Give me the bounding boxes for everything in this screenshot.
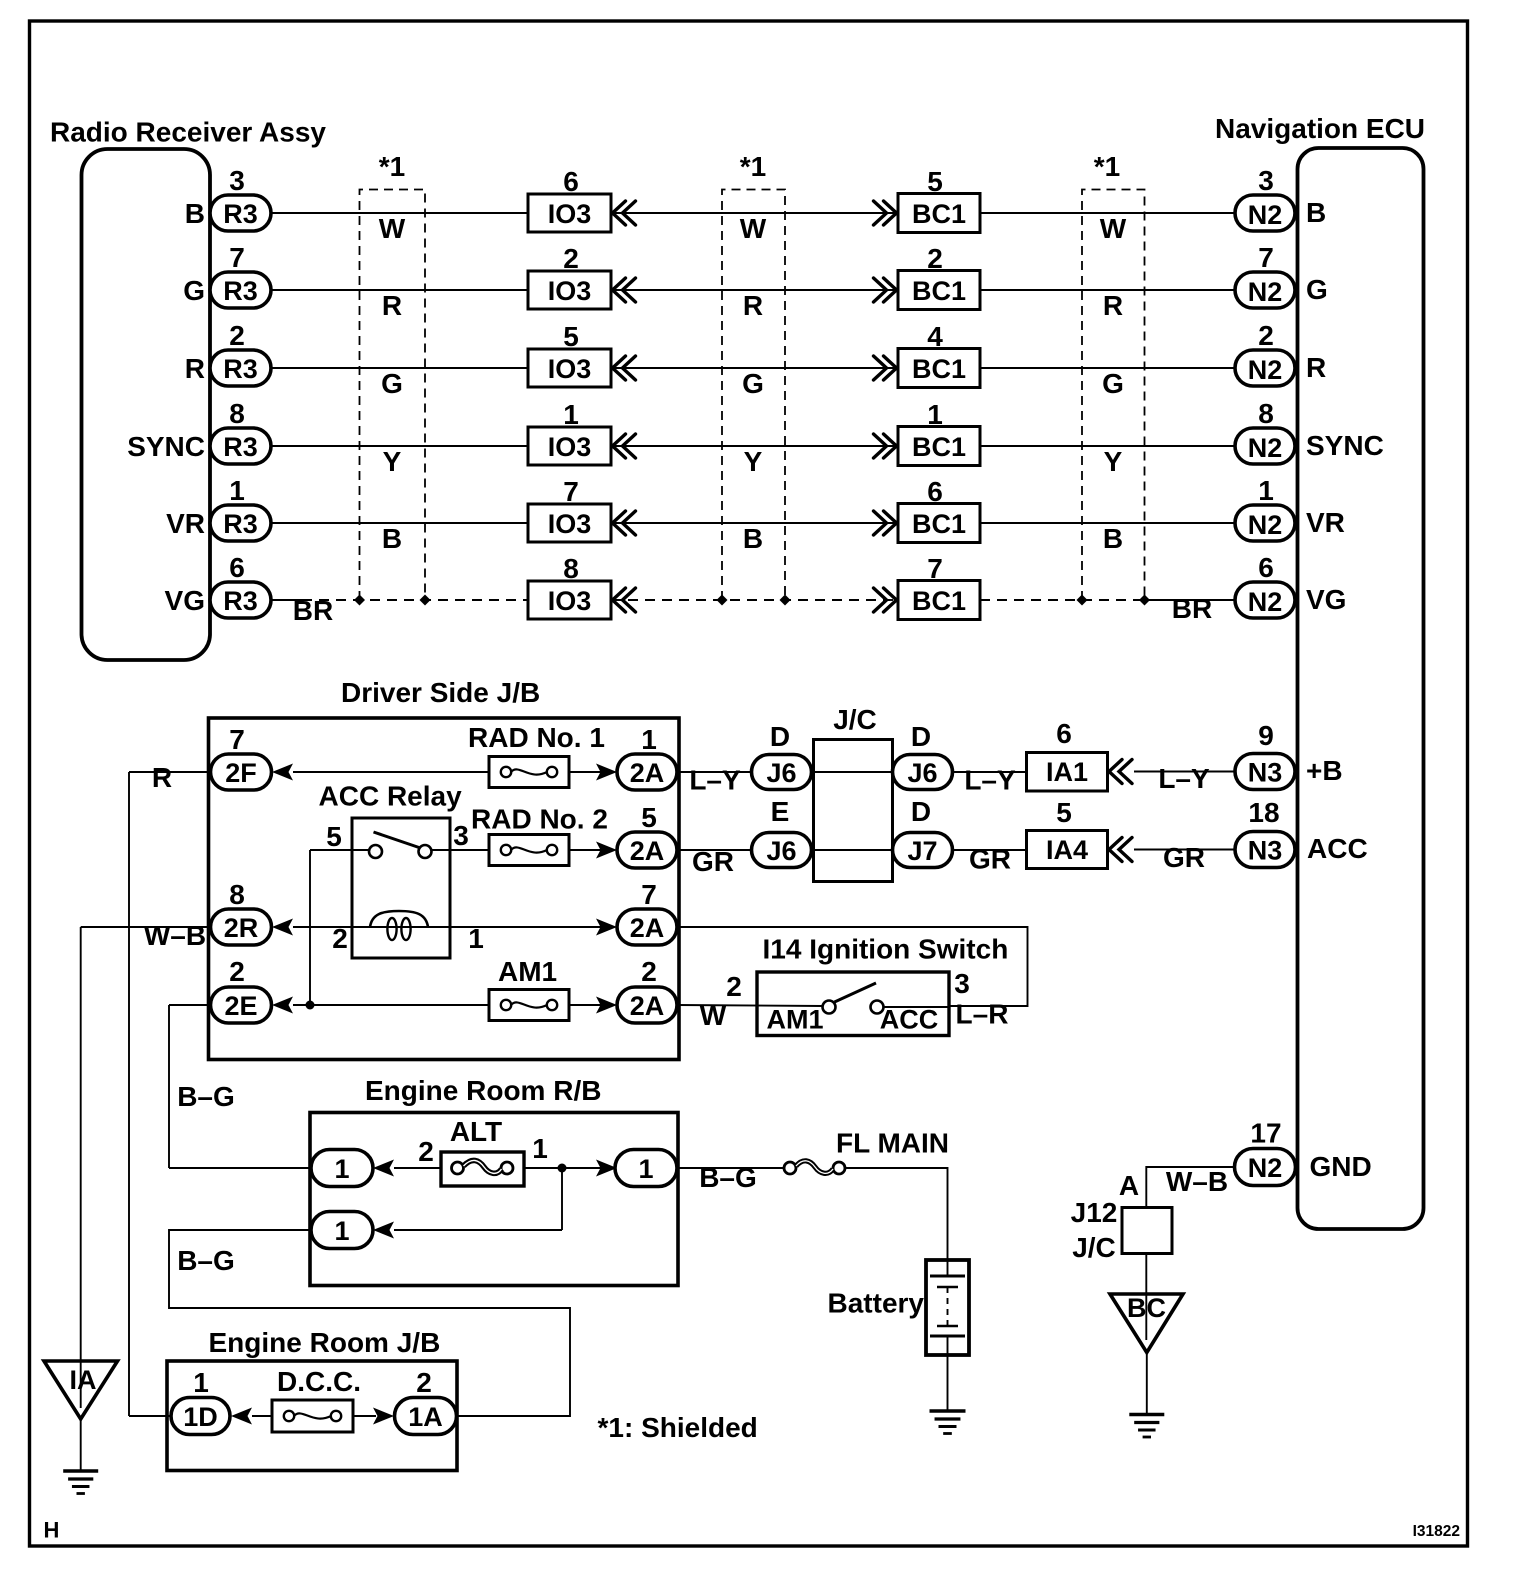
svg-text:5: 5: [563, 321, 579, 352]
svg-text:BC1: BC1: [912, 276, 966, 306]
wire from junction down to connector 1 lower: [394, 1229, 562, 1231]
junction dot on 2E wire: [306, 1001, 315, 1010]
svg-text:GR: GR: [969, 844, 1011, 875]
svg-text:3: 3: [954, 968, 970, 999]
wire FL MAIN to battery: [845, 1168, 948, 1260]
svg-text:2A: 2A: [630, 836, 665, 866]
wire G from BC1 to N2: [980, 289, 1235, 291]
svg-text:SYNC: SYNC: [127, 431, 205, 462]
wire through BC triangle: [1145, 1294, 1147, 1340]
fuse D.C.C.: [272, 1400, 353, 1432]
connector block Navigation ECU: [1298, 148, 1424, 1229]
svg-text:*1: *1: [1094, 151, 1120, 182]
svg-text:ACC: ACC: [1307, 833, 1368, 864]
shield dashed box 3: [1082, 190, 1145, 601]
svg-text:N3: N3: [1248, 836, 1283, 866]
wire W from 2A pin 2 to switch AM1 contact: [677, 1005, 823, 1006]
svg-text:6: 6: [1258, 552, 1274, 583]
chevron arrow into BC1 (R row): [874, 356, 897, 380]
relay block Engine Room R/B box: [310, 1113, 678, 1286]
svg-text:1D: 1D: [183, 1402, 218, 1432]
connector N3 pin 9: [1235, 754, 1295, 790]
battery: [926, 1260, 969, 1355]
svg-text:2A: 2A: [630, 913, 665, 943]
connector N2 pin 8 (SYNC): [1235, 428, 1295, 464]
svg-text:7: 7: [229, 724, 245, 755]
svg-text:1A: 1A: [408, 1402, 443, 1432]
svg-text:VG: VG: [165, 585, 205, 616]
svg-text:VR: VR: [1306, 507, 1345, 538]
wire AM1 fuse to 2A pin 2: [569, 1004, 601, 1006]
svg-text:N2: N2: [1248, 433, 1283, 463]
switch I14 box: [757, 972, 949, 1036]
svg-text:5: 5: [326, 821, 342, 852]
connector 2F: [211, 754, 272, 790]
ground below IA: [63, 1471, 98, 1494]
svg-text:2: 2: [641, 956, 657, 987]
connector R3 pin 2 (R): [210, 350, 271, 386]
wire B from BC1 to N2: [980, 212, 1235, 214]
svg-text:7: 7: [229, 242, 245, 273]
svg-text:18: 18: [1248, 797, 1279, 828]
wire through J/C ACC row: [814, 849, 893, 851]
svg-text:2: 2: [229, 956, 245, 987]
svg-text:2A: 2A: [630, 758, 665, 788]
svg-text:2F: 2F: [225, 758, 257, 788]
wire W-B from N2 GND to J12: [1146, 1167, 1235, 1208]
ground below battery: [930, 1411, 966, 1434]
wire W-B vertical down to IA ground triangle: [80, 927, 82, 1361]
svg-text:L–Y: L–Y: [689, 765, 741, 796]
arrow into 2A pin 5: [596, 842, 617, 859]
svg-text:R: R: [1103, 290, 1123, 321]
svg-text:GR: GR: [692, 846, 734, 877]
svg-text:RAD No. 2: RAD No. 2: [471, 804, 608, 835]
arrow into 2R: [272, 919, 293, 936]
fusible link ALT: [441, 1152, 524, 1186]
svg-text:AM1: AM1: [498, 956, 557, 987]
svg-text:IO3: IO3: [548, 354, 592, 384]
svg-text:R3: R3: [223, 586, 258, 616]
svg-text:8: 8: [229, 879, 245, 910]
svg-text:R3: R3: [223, 432, 258, 462]
connector 1D: [171, 1398, 230, 1435]
connector 1A: [395, 1398, 457, 1435]
shield drain junction diamond 5: [1077, 595, 1088, 606]
svg-text:IO3: IO3: [548, 432, 592, 462]
connector R3 pin 6 (VG): [210, 582, 271, 618]
svg-text:VG: VG: [1306, 584, 1346, 615]
wire J7 to IA4: [953, 849, 1027, 851]
fusible link FL MAIN: [784, 1161, 845, 1174]
wire through J/C +B row: [814, 771, 893, 773]
connector 1 lower: [311, 1212, 373, 1249]
svg-text:R: R: [1306, 352, 1326, 383]
chevron arrow into IO3 (G row): [613, 278, 636, 302]
svg-text:Y: Y: [383, 446, 402, 477]
switch contact ACC: [871, 1001, 884, 1014]
wire J6 to IA1: [953, 771, 1027, 773]
svg-text:17: 17: [1250, 1118, 1281, 1149]
svg-text:B–G: B–G: [699, 1162, 757, 1193]
wire VG from R3 to IO3: [271, 599, 302, 601]
svg-text:*1: *1: [740, 151, 766, 182]
svg-text:7: 7: [563, 476, 579, 507]
shield drain junction diamond 6: [1139, 595, 1150, 606]
svg-text:IA: IA: [70, 1365, 97, 1395]
connector N2 pin 3 (B): [1235, 195, 1295, 231]
svg-text:BC1: BC1: [912, 509, 966, 539]
svg-text:3: 3: [453, 820, 469, 851]
svg-text:IO3: IO3: [548, 586, 592, 616]
chevron arrow into IO3 (B row): [613, 201, 636, 225]
chevron arrow into BC1 (G row): [874, 278, 897, 302]
svg-text:I31822: I31822: [1413, 1523, 1460, 1540]
svg-text:Y: Y: [744, 446, 763, 477]
connector N2 pin 17 GND: [1235, 1149, 1296, 1186]
wire RAD No.1 fuse to 2A pin 1: [569, 771, 601, 773]
svg-text:ACC: ACC: [880, 1005, 939, 1035]
svg-text:G: G: [742, 368, 764, 399]
wire ALT fuse to oval 1 right: [523, 1167, 602, 1169]
arrow into 2E: [272, 997, 293, 1014]
svg-text:1: 1: [334, 1154, 349, 1184]
wire R from IO3 to BC1: [611, 367, 898, 369]
wire IA triangle to ground: [80, 1419, 82, 1471]
connector N2 pin 6 (VG): [1235, 582, 1295, 618]
svg-text:2: 2: [726, 971, 742, 1002]
svg-text:BC: BC: [1127, 1293, 1166, 1323]
svg-text:1: 1: [641, 724, 657, 755]
svg-text:Driver Side J/B: Driver Side J/B: [341, 677, 540, 708]
svg-text:Engine Room J/B: Engine Room J/B: [209, 1327, 441, 1358]
chevron arrow into BC1 (SYNC row): [874, 434, 897, 458]
svg-text:BC1: BC1: [912, 199, 966, 229]
junction block Engine Room J/B box: [167, 1361, 457, 1471]
connector J6 right: [893, 755, 953, 790]
svg-text:W: W: [700, 1000, 727, 1031]
wire IA4 to N3 pin 18: [1134, 849, 1235, 851]
wire VR from IO3 to BC1: [611, 522, 898, 524]
svg-text:2R: 2R: [224, 913, 259, 943]
connector 2E: [211, 987, 272, 1023]
connector R3 pin 7 (G): [210, 272, 271, 308]
svg-text:R: R: [743, 290, 763, 321]
svg-text:E: E: [771, 796, 790, 827]
svg-text:L–Y: L–Y: [1158, 763, 1210, 794]
relay contact 5: [369, 845, 382, 858]
svg-text:J/C: J/C: [833, 704, 877, 735]
svg-text:N2: N2: [1248, 1153, 1283, 1183]
connector block Radio Receiver Assy: [82, 149, 211, 660]
junction block Driver Side J/B: [209, 718, 680, 1060]
ground connector IA triangle: [44, 1361, 118, 1419]
svg-text:R3: R3: [223, 276, 258, 306]
wire IA1 to N3 pin 9: [1134, 771, 1235, 773]
svg-text:B: B: [1306, 197, 1326, 228]
wire DCC fuse to 1A: [353, 1415, 376, 1417]
fuse RAD No. 1: [489, 757, 569, 788]
svg-text:*1: Shielded: *1: Shielded: [598, 1412, 758, 1443]
svg-text:8: 8: [1258, 398, 1274, 429]
relay contact 3: [419, 845, 432, 858]
wire VR from R3 to IO3: [271, 522, 528, 524]
connector 2R: [211, 909, 272, 945]
svg-text:+B: +B: [1306, 755, 1343, 786]
svg-text:SYNC: SYNC: [1306, 430, 1384, 461]
wire GR 2A to J6 pin E: [677, 849, 752, 851]
svg-text:IO3: IO3: [548, 199, 592, 229]
arrow into 2A pin 1: [596, 764, 617, 781]
svg-text:L–Y: L–Y: [964, 765, 1016, 796]
wire battery to ground: [947, 1355, 949, 1411]
arrow into 1A: [373, 1408, 394, 1425]
junction connector IO3 (VR row): [528, 504, 611, 542]
arrow into 2A pin 7: [596, 919, 617, 936]
wire R from R3 to IO3: [271, 367, 528, 369]
svg-text:2E: 2E: [224, 991, 257, 1021]
connector 1 upper left: [311, 1150, 373, 1187]
svg-text:6: 6: [229, 552, 245, 583]
junction connector BC1 (B row): [898, 194, 980, 233]
junction connector BC1 (VG row): [898, 581, 980, 620]
svg-text:W: W: [1100, 213, 1127, 244]
arrow into 1D: [231, 1408, 252, 1425]
svg-text:1: 1: [638, 1154, 653, 1184]
svg-text:IA1: IA1: [1046, 757, 1088, 787]
arrow into 2A pin 2: [596, 997, 617, 1014]
wire 2E to AM1 fuse: [293, 1004, 489, 1006]
svg-text:Navigation ECU: Navigation ECU: [1215, 113, 1425, 144]
svg-text:1: 1: [563, 399, 579, 430]
wire G from R3 to IO3: [271, 289, 528, 291]
wire B from R3 to IO3: [271, 212, 528, 214]
svg-text:2: 2: [332, 923, 348, 954]
wire ACC contact to box edge: [884, 1006, 950, 1008]
svg-text:FL MAIN: FL MAIN: [836, 1128, 949, 1159]
svg-text:N2: N2: [1248, 277, 1283, 307]
wire W-B from 2R to left vertical: [81, 926, 210, 928]
shield drain junction diamond 4: [780, 595, 791, 606]
chevron arrow into BC1 (VR row): [874, 511, 897, 535]
wire SYNC from IO3 to BC1: [611, 445, 898, 447]
wire B-G from connector 1 lower to Engine Room J/B: [169, 1230, 570, 1416]
svg-text:ACC Relay: ACC Relay: [319, 781, 463, 812]
svg-text:5: 5: [1056, 797, 1072, 828]
svg-text:8: 8: [563, 553, 579, 584]
chevron arrow into IA1: [1109, 760, 1132, 784]
connector N3 pin 18: [1235, 832, 1295, 868]
svg-text:Y: Y: [1104, 446, 1123, 477]
chevron arrow into BC1 (VG row): [874, 588, 897, 612]
svg-text:W: W: [740, 213, 767, 244]
svg-text:W–B: W–B: [144, 920, 206, 951]
svg-text:J6: J6: [907, 758, 937, 788]
wire B-G oval 1 to FL MAIN: [677, 1167, 790, 1169]
junction connector IO3 (SYNC row): [528, 427, 611, 465]
svg-text:B–G: B–G: [177, 1245, 235, 1276]
svg-text:2: 2: [563, 243, 579, 274]
junction connector BC1 (G row): [898, 271, 980, 310]
connector 1 right: [615, 1150, 677, 1187]
svg-text:G: G: [183, 275, 205, 306]
svg-text:R: R: [185, 353, 205, 384]
svg-text:W–B: W–B: [1166, 1166, 1228, 1197]
arrow into 2F: [272, 764, 293, 781]
connector R3 pin 8 (SYNC): [210, 428, 271, 464]
svg-text:9: 9: [1258, 720, 1274, 751]
svg-text:N2: N2: [1248, 355, 1283, 385]
svg-text:IO3: IO3: [548, 509, 592, 539]
chevron arrow into IA4: [1109, 838, 1132, 862]
fuse RAD No. 2: [489, 835, 569, 866]
svg-text:D: D: [770, 721, 790, 752]
wire 1D arrow to DCC fuse: [252, 1415, 272, 1417]
wire R from BC1 to N2: [980, 367, 1235, 369]
wire R from 2F to left vertical: [129, 771, 210, 773]
junction connector IO3 (R row): [528, 349, 611, 387]
junction connector IA4: [1027, 831, 1108, 869]
svg-text:*1: *1: [379, 151, 405, 182]
svg-text:1: 1: [468, 923, 484, 954]
svg-text:3: 3: [1258, 165, 1274, 196]
svg-text:R3: R3: [223, 354, 258, 384]
svg-text:6: 6: [1056, 718, 1072, 749]
wire B-G into oval 1 upper: [169, 1167, 312, 1169]
svg-text:N3: N3: [1248, 758, 1283, 788]
junction connector BC1 (R row): [898, 349, 980, 388]
ground below BC: [1129, 1415, 1164, 1438]
svg-text:Radio Receiver Assy: Radio Receiver Assy: [50, 117, 326, 148]
connector N2 pin 2 (R): [1235, 350, 1295, 386]
svg-text:BC1: BC1: [912, 354, 966, 384]
wire SYNC from R3 to IO3: [271, 445, 528, 447]
wire BC triangle to ground: [1146, 1353, 1148, 1415]
shield drain junction diamond 3: [717, 595, 728, 606]
svg-text:I14 Ignition Switch: I14 Ignition Switch: [763, 934, 1009, 965]
svg-text:D.C.C.: D.C.C.: [277, 1366, 361, 1397]
chevron arrow into IO3 (R row): [613, 356, 636, 380]
wire L-Y 2A to J6: [677, 771, 752, 773]
svg-text:L–R: L–R: [956, 999, 1009, 1030]
svg-text:VR: VR: [166, 508, 205, 539]
junction connector BC1 (SYNC row): [898, 427, 980, 466]
shield drain junction diamond 1: [354, 595, 365, 606]
wire through IA triangle: [80, 1361, 82, 1408]
connector 2A pin 2: [617, 987, 677, 1023]
svg-text:GR: GR: [1163, 842, 1205, 873]
chevron arrow into IO3 (VR row): [613, 511, 636, 535]
svg-text:D: D: [911, 721, 931, 752]
wire VR from BC1 to N2: [980, 522, 1235, 524]
connector J7: [893, 833, 953, 868]
svg-text:B–G: B–G: [177, 1081, 235, 1112]
wire SYNC from BC1 to N2: [980, 445, 1235, 447]
svg-text:1: 1: [1258, 475, 1274, 506]
svg-text:B: B: [382, 523, 402, 554]
svg-text:BC1: BC1: [912, 432, 966, 462]
svg-text:ALT: ALT: [450, 1116, 502, 1147]
relay switch lever: [374, 832, 420, 848]
junction connector J/C box: [814, 740, 893, 882]
svg-text:2: 2: [1258, 320, 1274, 351]
arrow into connector 1 right: [596, 1160, 617, 1177]
svg-text:GND: GND: [1310, 1151, 1372, 1182]
connector 2A pin 7: [617, 909, 677, 945]
wire 2F to RAD No.1 fuse: [293, 771, 489, 773]
shield drain junction diamond 2: [420, 595, 431, 606]
wire B-G vertical down to Engine Room R/B: [168, 1005, 170, 1168]
wire relay coil row 2R to 2A pin 7: [293, 926, 601, 928]
svg-text:7: 7: [1258, 242, 1274, 273]
wire 2A pin 7 to ignition switch pin 3: [677, 927, 1028, 1006]
wire relay pin 5 down to 2E row: [310, 849, 369, 851]
shield dashed box 1: [360, 190, 426, 601]
relay coil: [370, 911, 428, 927]
wire RAD No.2 fuse to 2A pin 5: [569, 849, 601, 851]
arrow into connector 1 upper: [373, 1160, 394, 1177]
svg-text:J12: J12: [1071, 1197, 1118, 1228]
connector 2A pin 5: [617, 832, 677, 868]
svg-text:AM1: AM1: [766, 1005, 823, 1035]
wire B-G from 2E to left vertical: [169, 1004, 210, 1006]
svg-text:1: 1: [334, 1216, 349, 1246]
svg-text:6: 6: [563, 166, 579, 197]
svg-text:D: D: [911, 796, 931, 827]
connector N2 pin 7 (G): [1235, 272, 1295, 308]
svg-text:J7: J7: [907, 836, 937, 866]
wire R into connector 1D: [129, 1415, 171, 1417]
svg-text:G: G: [381, 368, 403, 399]
svg-text:7: 7: [641, 879, 657, 910]
svg-text:R3: R3: [223, 509, 258, 539]
arrow into connector 1 lower: [373, 1222, 394, 1239]
wire R vertical down to 1D: [128, 772, 130, 1416]
wire VG from BC1 to N2: [980, 599, 1148, 601]
svg-text:1: 1: [193, 1367, 209, 1398]
svg-text:B: B: [1103, 523, 1123, 554]
wire G from IO3 to BC1: [611, 289, 898, 291]
switch contact AM1: [823, 1001, 836, 1014]
wire J12 to BC triangle: [1145, 1254, 1147, 1295]
svg-text:G: G: [1306, 274, 1328, 305]
junction connector IO3 (B row): [528, 194, 611, 232]
svg-text:8: 8: [229, 398, 245, 429]
svg-text:RAD No. 1: RAD No. 1: [468, 722, 605, 753]
svg-text:A: A: [1119, 1170, 1139, 1201]
svg-text:BR: BR: [293, 595, 333, 626]
svg-text:J6: J6: [766, 836, 796, 866]
svg-text:5: 5: [641, 802, 657, 833]
relay ACC Relay box: [352, 818, 450, 958]
svg-text:J/C: J/C: [1072, 1232, 1116, 1263]
svg-text:N2: N2: [1248, 587, 1283, 617]
svg-text:J6: J6: [766, 758, 796, 788]
junction connector IO3 (G row): [528, 271, 611, 309]
chevron arrow into IO3 (VG row): [613, 588, 636, 612]
svg-text:BC1: BC1: [912, 586, 966, 616]
svg-text:H: H: [44, 1518, 60, 1543]
svg-text:IO3: IO3: [548, 276, 592, 306]
chevron arrow into IO3 (SYNC row): [613, 434, 636, 458]
connector 2A pin 1: [617, 754, 677, 790]
wire arrow to ALT fuse: [394, 1167, 442, 1169]
connector R3 pin 1 (VR): [210, 505, 271, 541]
svg-text:1: 1: [229, 475, 245, 506]
svg-text:Battery: Battery: [828, 1288, 925, 1319]
svg-text:G: G: [1102, 368, 1124, 399]
switch lever: [835, 983, 877, 1002]
